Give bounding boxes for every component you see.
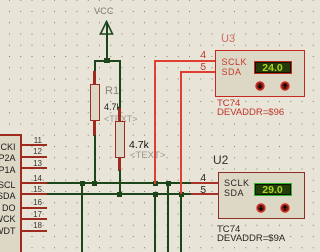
pin lead R2 bottom: [118, 158, 121, 171]
wire SCL horizontal: [47, 182, 191, 184]
value 4.7k R2: [129, 140, 149, 151]
VCC arrow triangle: [98, 20, 116, 37]
LCD value 29.0: [254, 185, 291, 196]
label TEXT R1: [104, 115, 138, 124]
LCD display U3: [254, 61, 292, 74]
label R1: [105, 86, 119, 97]
pin stub 14: [22, 182, 47, 184]
pin name SDA U3: [222, 68, 242, 77]
label TC74 U2: [217, 225, 240, 235]
connector U1 body (left edge chip): [0, 134, 22, 252]
pin name P1A: [0, 166, 16, 175]
pin number 4 U2: [191, 174, 206, 184]
pin lead R1 top: [93, 71, 96, 85]
wire vertical down from SCL at x168: [167, 183, 169, 252]
pin number 11: [27, 137, 42, 145]
wire R2 bottom to SDA: [119, 170, 121, 195]
label DEVADDR=$96: [217, 108, 284, 118]
pin name SCLK U3: [222, 58, 248, 67]
wire U3 SCLK red horizontal: [154, 60, 215, 62]
pin stub 12: [22, 156, 47, 158]
wire right branch down to R2: [119, 60, 121, 110]
pin name P2A: [0, 154, 16, 163]
node dot SDA x181: [179, 192, 184, 197]
resistor R1: [90, 84, 100, 121]
pin name SDA U2: [224, 189, 244, 198]
resistor R2: [115, 121, 125, 159]
pin stub 15: [22, 193, 47, 195]
node dot SCL x155 (red wire end): [153, 181, 158, 186]
node dot SCL x82: [80, 181, 85, 186]
button up U2: [280, 203, 290, 213]
wire U3 SDA red vertical: [180, 71, 182, 194]
label TEXT R2: [130, 151, 165, 161]
pin number 13: [27, 160, 42, 168]
pin stub 16: [22, 207, 47, 209]
pin name DO: [0, 204, 16, 213]
wire U3 SDA red horizontal: [180, 71, 215, 73]
label DEVADDR=$9A: [217, 234, 285, 244]
node junction at VCC split: [104, 58, 110, 63]
pin name WDT: [0, 227, 16, 236]
node dot SCL R1: [92, 181, 97, 186]
label U3: [221, 34, 235, 45]
wire vertical down from SDA at x181: [180, 194, 182, 252]
wire R1 bottom to SCL: [94, 135, 96, 184]
pin stub 17: [22, 218, 47, 220]
pin number 12: [27, 148, 42, 156]
button up U3: [280, 81, 290, 91]
pin number 15: [27, 186, 42, 194]
pin name SDA: [0, 192, 16, 201]
pin number 17: [27, 211, 42, 219]
pin number 16: [27, 199, 42, 207]
pin number 18: [27, 222, 42, 230]
button down U2: [256, 203, 266, 213]
pin stub 11: [22, 144, 47, 146]
button down U3: [255, 81, 265, 91]
pin stub U2 pin5: [191, 193, 219, 195]
wire horizontal under VCC: [94, 60, 121, 62]
LCD display U2: [254, 183, 292, 196]
op-amp U2 body: [218, 172, 305, 220]
pin number 4 U3: [191, 51, 206, 61]
pin stub U2 pin4: [191, 182, 219, 184]
pin stub 13: [22, 167, 47, 169]
pin name SCLK U2: [224, 179, 250, 188]
pin name CKI: [0, 143, 16, 152]
pin name WCK: [0, 215, 16, 224]
pin number 14: [27, 175, 42, 183]
LCD value 24.0: [254, 63, 291, 74]
power symbol VCC: [94, 7, 114, 16]
pin name SCL: [0, 181, 16, 190]
pin lead R1 bottom: [93, 121, 96, 136]
wire vertical down from SCL at x82: [81, 183, 83, 252]
label U2: [213, 154, 228, 166]
pin stub 18: [22, 230, 47, 232]
node dot SDA x155: [153, 192, 158, 197]
op-amp U3 body: [215, 50, 305, 97]
label TC74 U3: [217, 99, 240, 109]
wire vertical down from SDA at x155: [154, 194, 156, 252]
wire left branch down to R1: [94, 60, 96, 73]
wire U3 SCLK red vertical: [154, 60, 156, 184]
value 4.7k R1: [104, 103, 121, 112]
node dot SDA R2: [117, 192, 122, 197]
wire SDA horizontal: [47, 193, 191, 195]
wire VCC vertical: [106, 22, 108, 60]
node dot SCL x168: [166, 181, 171, 186]
pin lead R2 top: [118, 108, 121, 122]
pin number 5 U2: [191, 186, 206, 196]
pin number 5 U3: [191, 63, 206, 73]
